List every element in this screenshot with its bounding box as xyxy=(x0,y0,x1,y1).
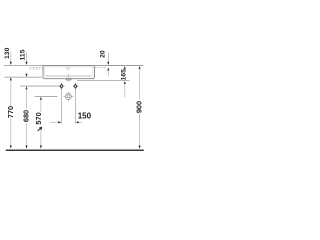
dim 770 xyxy=(6,77,15,148)
dim 570 xyxy=(34,97,43,149)
drain target symbol xyxy=(64,92,74,102)
rim extension line to right xyxy=(95,65,144,67)
overflow circle xyxy=(67,67,69,69)
svg-text:20: 20 xyxy=(100,50,107,58)
drain ticks xyxy=(66,78,68,81)
dim 130 xyxy=(4,47,12,64)
dim 115 xyxy=(20,49,28,77)
svg-text:130: 130 xyxy=(4,47,11,59)
drain flange line xyxy=(65,78,72,80)
570 level line xyxy=(35,96,58,98)
extension line from left diamond xyxy=(61,83,63,124)
svg-text:570: 570 xyxy=(34,112,43,124)
bowl bottom line xyxy=(46,75,91,77)
svg-text:680: 680 xyxy=(22,110,31,122)
svg-text:165: 165 xyxy=(120,69,127,81)
680 level line xyxy=(20,85,60,87)
fixing point diamond left xyxy=(59,84,65,88)
dim 150 xyxy=(50,111,91,123)
basin inner contour xyxy=(45,67,93,77)
leader arrow NE for 570 xyxy=(38,127,43,131)
drain centerline xyxy=(68,74,70,82)
floor line xyxy=(6,149,144,151)
dim 900 xyxy=(135,66,144,149)
770 level line xyxy=(5,76,42,78)
hidden dashed lines left of basin xyxy=(30,66,43,68)
fixing point diamond right xyxy=(73,84,79,88)
extension line from right diamond xyxy=(75,83,77,124)
hidden dashed line right of basin (20 dim) xyxy=(95,67,107,69)
dim 165 xyxy=(120,66,127,98)
dim 680 xyxy=(22,86,31,148)
svg-text:900: 900 xyxy=(135,101,144,113)
165 bottom level line xyxy=(77,80,130,82)
dim 20 xyxy=(100,50,110,76)
svg-text:150: 150 xyxy=(78,111,92,120)
drain tailpiece line xyxy=(66,79,71,81)
svg-text:770: 770 xyxy=(6,106,15,118)
wire: left reference line at rim level xyxy=(4,65,43,67)
basin outer profile xyxy=(43,66,95,79)
svg-text:115: 115 xyxy=(20,49,27,60)
